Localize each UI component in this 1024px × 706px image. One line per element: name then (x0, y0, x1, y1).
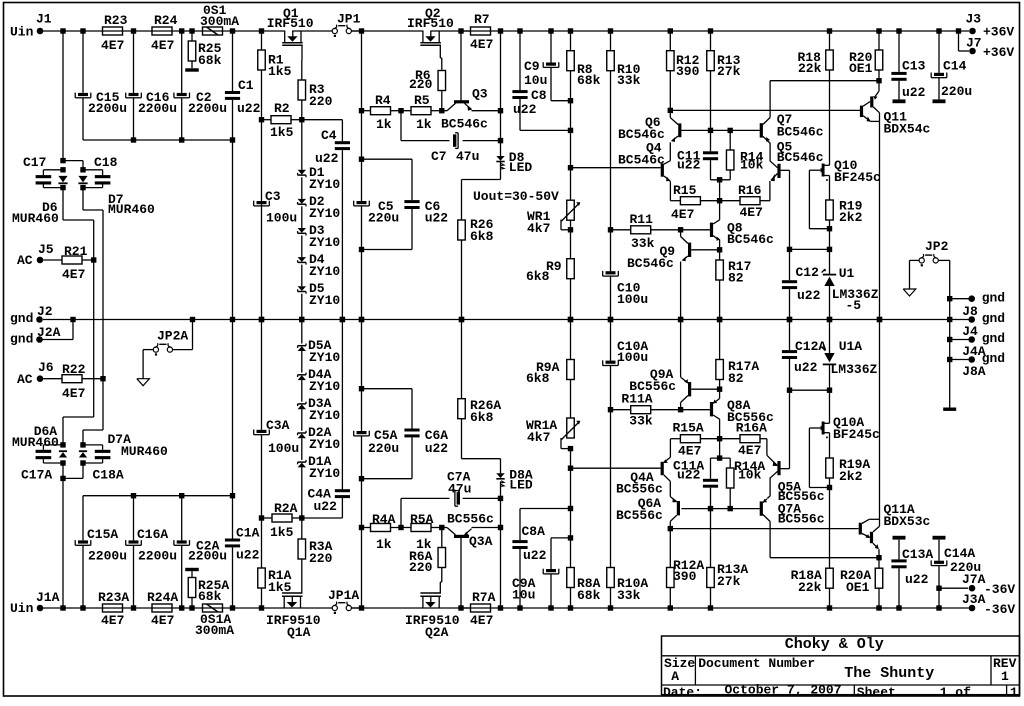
svg-text:82: 82 (728, 371, 744, 386)
connector J4A (950, 331, 1005, 359)
svg-text:R7A: R7A (472, 590, 496, 605)
wire chainA link3 (301, 380, 303, 402)
resistor R10A (607, 568, 649, 609)
svg-text:u22: u22 (425, 211, 449, 226)
svg-text:C3A: C3A (266, 418, 290, 433)
junction C11 bus (717, 177, 722, 182)
svg-text:R22: R22 (62, 362, 86, 377)
svg-text:gnd: gnd (10, 331, 33, 346)
jumper JP1 (332, 12, 360, 37)
svg-text:C4: C4 (321, 128, 337, 143)
svg-text:22k: 22k (798, 580, 822, 595)
svg-text:C14A: C14A (944, 546, 975, 561)
svg-text:-36V: -36V (984, 582, 1015, 597)
wire C15 to bus (82, 98, 84, 140)
resistor R18A (791, 488, 834, 609)
junction U1 top node (827, 247, 832, 252)
title date row (663, 683, 1018, 701)
svg-text:ZY10: ZY10 (309, 350, 340, 365)
svg-text:A: A (671, 669, 679, 684)
svg-text:u22: u22 (425, 441, 449, 456)
transistor Q2A IRF9510 (405, 582, 460, 640)
junction Q11A emitter node (876, 555, 881, 560)
svg-text:1k5: 1k5 (270, 525, 294, 540)
svg-text:JP1: JP1 (337, 12, 361, 27)
resistor R2 (262, 101, 302, 140)
wire C8 to R8 column (520, 99, 571, 130)
rail stub bar over C13A (893, 536, 906, 540)
resistor R19 (826, 199, 863, 275)
wire C6A top bus (362, 389, 413, 429)
wire R1A feed (261, 320, 263, 569)
capacitor C17A (21, 445, 63, 483)
svg-text:AC: AC (17, 372, 33, 387)
svg-text:R11: R11 (630, 212, 654, 227)
svg-text:-36V: -36V (984, 602, 1015, 617)
svg-text:J3: J3 (966, 12, 982, 27)
svg-text:100u: 100u (617, 292, 648, 307)
svg-text:BC546c: BC546c (627, 256, 674, 271)
capacitor C6A (404, 428, 448, 456)
svg-text:47u: 47u (456, 149, 479, 164)
junction D7 top (80, 167, 85, 172)
svg-text:6k8: 6k8 (526, 371, 550, 386)
svg-text:10k: 10k (740, 158, 764, 173)
junction R7A right (498, 605, 503, 610)
wire R2A junction to C4A (302, 498, 343, 518)
svg-text:4E7: 4E7 (738, 443, 761, 458)
resistor R5 (411, 93, 432, 132)
junction R5R6 node (439, 108, 444, 113)
wire top cap bus (83, 139, 233, 141)
resistor R2A (262, 501, 302, 540)
junction top rail x83 (80, 28, 85, 33)
svg-text:BC546c: BC546c (777, 125, 824, 140)
junction bottom bus x232 (230, 493, 235, 498)
capacitor C15A (75, 527, 127, 564)
svg-text:4E7: 4E7 (470, 37, 493, 52)
svg-text:J3A: J3A (962, 592, 986, 607)
svg-text:J7A: J7A (962, 572, 986, 587)
junction D7 bottom (80, 185, 85, 190)
resistor R7 (470, 12, 493, 52)
title text Choky & Oly (785, 636, 884, 653)
wire Q1A gate to R3A (301, 559, 303, 580)
wire Q2A gate to R6A (441, 568, 443, 583)
svg-text:gnd: gnd (982, 290, 1005, 305)
svg-text:-5: -5 (846, 298, 862, 313)
capacitor C18 (83, 155, 118, 188)
svg-text:MUR460: MUR460 (12, 211, 59, 226)
resistor R25A (188, 571, 229, 606)
svg-text:33k: 33k (629, 413, 653, 428)
wire JP1 node down (361, 31, 363, 201)
wire Q3A emitter node up (500, 482, 502, 609)
capacitor C4A (308, 487, 351, 515)
capacitor C5 (354, 199, 400, 226)
svg-text:C17: C17 (23, 155, 46, 170)
svg-text:The Shunty: The Shunty (844, 665, 934, 682)
junction Q8A emitter node (717, 387, 722, 392)
zener D4A (298, 367, 341, 394)
wire C4A to gnd rail (341, 320, 343, 490)
svg-text:R4: R4 (375, 93, 391, 108)
zener D1A (298, 454, 341, 481)
svg-text:u22: u22 (523, 548, 547, 563)
wire chainA link4 (301, 351, 303, 373)
capacitor C14A (931, 540, 981, 608)
svg-text:C7: C7 (431, 149, 447, 164)
svg-text:R23: R23 (104, 13, 128, 28)
junction top rail x570 (568, 28, 573, 33)
zener D5A (298, 338, 341, 365)
wire C8A to R8A column (520, 509, 571, 609)
junction JP2A tie (190, 317, 195, 322)
capacitor C9 (524, 59, 559, 88)
wire R22 column to D7A (83, 320, 103, 445)
zener D5 (298, 281, 341, 308)
wire R7A span (461, 607, 471, 609)
junction Q4A base tie (568, 466, 573, 471)
svg-text:U1A: U1A (839, 339, 863, 354)
svg-text:1k: 1k (416, 117, 432, 132)
junction J4A tie (947, 337, 952, 342)
wire R4-R5 (391, 110, 412, 112)
svg-text:BF245c: BF245c (833, 427, 880, 442)
connector J4 (962, 311, 1005, 339)
wire R7 span (461, 30, 471, 32)
svg-text:68k: 68k (577, 73, 601, 88)
junction R21 tie (91, 257, 96, 262)
junction R26 gnd (459, 317, 464, 322)
junction R4A left (359, 525, 364, 530)
capacitor C17 (23, 155, 63, 188)
zener D2 (298, 194, 341, 221)
wire Q10 gate bypass (809, 170, 829, 229)
junction U1A gnd (827, 317, 832, 322)
svg-text:u22: u22 (314, 499, 338, 514)
wire WR1 to R9 (570, 220, 572, 259)
junction top rail x232 (230, 28, 235, 33)
junction bottom rail x570 (568, 605, 573, 610)
svg-text:R4A: R4A (372, 512, 396, 527)
wire C2 branch (181, 31, 183, 93)
svg-text:C13A: C13A (902, 547, 933, 562)
junction C4A gnd (340, 317, 345, 322)
junction top rail x192 (189, 28, 194, 33)
svg-text:J8A: J8A (962, 364, 986, 379)
junction C7A right (498, 496, 503, 501)
wire C6A bottom bus (362, 437, 413, 478)
svg-text:Q3: Q3 (472, 87, 488, 102)
svg-text:4E7: 4E7 (740, 205, 763, 220)
svg-text:C13: C13 (902, 59, 926, 74)
svg-text:u22: u22 (797, 288, 821, 303)
svg-text:J6: J6 (38, 360, 54, 375)
capacitor C1A (225, 526, 260, 563)
wire C1 branch (232, 31, 234, 91)
wire bottom cap bus (83, 495, 233, 497)
svg-text:2200u: 2200u (188, 101, 227, 116)
svg-text:4k7: 4k7 (527, 221, 550, 236)
svg-text:220u: 220u (941, 84, 972, 99)
resistor R15 (670, 182, 719, 222)
svg-text:1: 1 (1010, 685, 1018, 700)
svg-text:C12: C12 (796, 265, 820, 280)
resistor R14 (726, 130, 763, 179)
svg-text:C1: C1 (238, 78, 254, 93)
capacitor C7 47u (431, 133, 479, 164)
svg-text:October 7, 2007: October 7, 2007 (725, 683, 842, 698)
junction C12 top tie (787, 247, 792, 252)
svg-text:68k: 68k (198, 53, 222, 68)
junction bus x181 (179, 137, 184, 142)
svg-text:BDX54c: BDX54c (884, 122, 931, 137)
svg-text:33k: 33k (617, 588, 641, 603)
resistor R21 (43, 244, 93, 282)
wire C11A to bus (711, 439, 731, 479)
resistor R13A (707, 562, 749, 608)
svg-text:R15A: R15A (673, 421, 704, 436)
svg-text:u22: u22 (902, 85, 926, 100)
junction R11A left (608, 407, 613, 412)
wire R1 feed (261, 31, 263, 50)
capacitor C12A (782, 320, 827, 469)
svg-text:BC556c: BC556c (447, 512, 494, 527)
wire R13 down (710, 71, 712, 152)
svg-text:300mA: 300mA (195, 623, 234, 638)
wire C1 to bus to gnd rail (232, 100, 234, 320)
capacitor C16 (126, 90, 177, 116)
svg-text:6k8: 6k8 (470, 410, 494, 425)
svg-text:Q2A: Q2A (425, 625, 449, 640)
svg-text:Size: Size (664, 656, 695, 671)
junction R17 gnd (717, 317, 722, 322)
wire D7 out to R22 column (83, 188, 103, 320)
svg-text:R5A: R5A (410, 512, 434, 527)
wire C6 bottom bus (362, 209, 413, 250)
wire D8A to R26A (462, 419, 501, 474)
capacitor C9A (512, 569, 559, 603)
junction bottom bus x181 (179, 493, 184, 498)
svg-text:C16A: C16A (137, 527, 168, 542)
ground bar above R25A (185, 568, 199, 571)
svg-text:R2A: R2A (274, 501, 298, 516)
junction R14A bottom (728, 506, 733, 511)
junction R1 gnd (259, 317, 264, 322)
junction chain gnd (299, 317, 304, 322)
junction D7A bottom (80, 460, 85, 465)
resistor R11 (611, 212, 681, 251)
svg-text:R23A: R23A (98, 590, 129, 605)
wire R10A up (610, 366, 612, 568)
junction C5AC6A top bus (359, 386, 364, 391)
svg-text:u22: u22 (905, 572, 929, 587)
junction J7A tie (936, 586, 941, 591)
transistor Q10A BF245c (809, 415, 880, 458)
svg-text:U1: U1 (839, 266, 855, 281)
wire C2A to rail (181, 546, 183, 608)
svg-text:82: 82 (728, 271, 744, 286)
title The Shunty (844, 665, 934, 682)
junction J8A tie (947, 357, 952, 362)
junction R13 base node (708, 128, 713, 133)
transistor Q8 BC546c (681, 201, 774, 250)
resistor R4 (362, 93, 392, 132)
svg-text:220u: 220u (368, 441, 399, 456)
junction D6 bottom (60, 185, 65, 190)
svg-text:220: 220 (409, 77, 433, 92)
junction C12A gnd (787, 317, 792, 322)
resistor R26 (458, 217, 494, 320)
junction R14 top (728, 128, 733, 133)
connector J7 (959, 31, 1015, 60)
svg-text:1k: 1k (376, 537, 392, 552)
transistor Q9A BC556c (629, 320, 719, 410)
junction D6 elbow (60, 158, 65, 163)
junction J8 tie (947, 296, 952, 301)
resistor R24 (151, 13, 178, 53)
wire C7A link (401, 498, 501, 527)
svg-text:4E7: 4E7 (671, 207, 694, 222)
capacitor C13 (891, 31, 925, 100)
junction R9 gnd (568, 317, 573, 322)
svg-text:J1: J1 (36, 12, 52, 27)
junction top rail x939 (936, 28, 941, 33)
junction WR1A wiper (568, 446, 573, 451)
wire C16 branch (133, 31, 135, 93)
svg-text:390: 390 (673, 569, 697, 584)
junction bottom rail x829 (827, 605, 832, 610)
wire R4A-R5A (391, 527, 412, 529)
junction C8A tie (568, 506, 573, 511)
diode D8A LED (496, 468, 533, 493)
junction D7A top (80, 442, 85, 447)
capacitor C12 (782, 170, 821, 319)
zener D3 (298, 223, 341, 250)
svg-text:10u: 10u (524, 73, 547, 88)
junction top rail x610 (608, 28, 613, 33)
wire C15A branch (82, 496, 84, 541)
junction C4 gnd (340, 317, 345, 322)
resistor R16A (720, 421, 768, 459)
capacitor C5A (354, 428, 400, 456)
svg-text:2k2: 2k2 (839, 469, 863, 484)
junction C5C6 bottom bus (359, 247, 364, 252)
resistor R17A (716, 320, 760, 390)
transistor Q5A BC556c (767, 439, 825, 504)
junction R26A gnd (459, 317, 464, 322)
svg-text:1k5: 1k5 (268, 64, 292, 79)
resistor R15A (670, 421, 719, 459)
wire JP1 right to node (351, 30, 361, 32)
svg-text:BC546c: BC546c (727, 232, 774, 247)
svg-text:100u: 100u (266, 211, 297, 226)
resistor R3A (298, 518, 333, 566)
resistor R7A (470, 590, 496, 628)
transistor Q8A BC556c (681, 389, 774, 439)
svg-text:1: 1 (1001, 669, 1009, 684)
resistor R8A (567, 568, 601, 609)
capacitor C16A (126, 527, 177, 564)
connector J5 (17, 242, 54, 268)
svg-text:BF245c: BF245c (834, 170, 881, 185)
svg-text:JP2A: JP2A (157, 329, 188, 344)
junction R2 right (299, 117, 304, 122)
junction top rail x958 (956, 28, 961, 33)
resistor R12 (667, 31, 700, 79)
resistor R13 (707, 31, 741, 79)
svg-text:u22: u22 (513, 102, 537, 117)
svg-text:ZY10: ZY10 (309, 408, 340, 423)
junction R2A right (299, 515, 304, 520)
junction top rail x133 (131, 28, 136, 33)
capacitor C13A (891, 540, 933, 608)
junction C8 tie (568, 128, 573, 133)
connector J2A (10, 320, 73, 347)
ground arrow JP2 (903, 289, 916, 296)
svg-text:J7: J7 (966, 36, 982, 51)
zener D2A (298, 425, 341, 452)
junction C9 tie (568, 98, 573, 103)
svg-text:R5: R5 (414, 93, 430, 108)
junction R12 Q6 node (668, 108, 673, 113)
junction R2 left (259, 117, 264, 122)
junction C5AC6A bottom bus (359, 476, 364, 481)
transistor Q1A IRF9510 (266, 580, 321, 640)
connector J7A (939, 572, 1015, 597)
capacitor C7A 47u (447, 470, 471, 507)
potentiometer WR1 4k7 (527, 200, 580, 236)
wire Q1 gate to R3 (301, 60, 303, 80)
junction Q3A base rail (458, 605, 463, 610)
resistor R22 (43, 362, 103, 401)
wire R21 column to D6A (63, 320, 94, 445)
jumper JP1A (328, 588, 359, 614)
resistor R12A (667, 558, 705, 608)
junction top rail x829 (827, 28, 832, 33)
junction R15 R16 node (717, 198, 722, 203)
svg-text:Document Number: Document Number (698, 656, 815, 671)
wire chainA to gnd rail (301, 320, 303, 344)
svg-text:C3: C3 (265, 189, 281, 204)
junction top rail x899 (896, 28, 901, 33)
wire JP1A right to node (351, 607, 361, 609)
capacitor C11A (673, 459, 718, 488)
junction R22 tie (100, 376, 105, 381)
junction J4 tie (947, 317, 952, 322)
svg-text:BC556c: BC556c (727, 410, 774, 425)
junction C5 gnd (359, 317, 364, 322)
junction bottom rail x550 (548, 605, 553, 610)
svg-text:Sheet: Sheet (857, 685, 896, 700)
title document number (698, 656, 815, 671)
wire C11 to bus (711, 160, 731, 201)
wire C2A branch (181, 496, 183, 541)
svg-text:BC556c: BC556c (778, 511, 825, 526)
transistor Q3 BC546c (441, 31, 501, 132)
resistor R9A (526, 320, 574, 387)
svg-text:6k8: 6k8 (526, 269, 550, 284)
connector J8A (950, 351, 1005, 379)
resistor R23 (101, 13, 128, 53)
junction C5A gnd (359, 317, 364, 322)
svg-text:4k7: 4k7 (527, 430, 550, 445)
svg-text:47u: 47u (448, 482, 471, 497)
svg-text:BC546c: BC546c (441, 117, 488, 132)
junction R17A gnd (717, 317, 722, 322)
svg-text:BC546c: BC546c (777, 150, 824, 165)
